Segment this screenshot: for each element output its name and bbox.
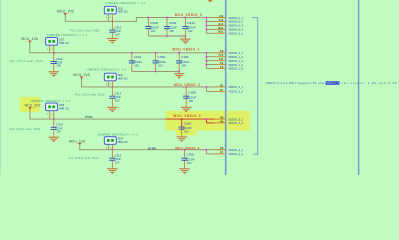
svg-text:N12: N12 — [218, 30, 223, 34]
svg-text:P500: P500 — [85, 115, 93, 119]
svg-text:10V: 10V — [170, 29, 175, 33]
svg-text:C188: C188 — [184, 121, 192, 125]
svg-text:N9: N9 — [220, 119, 224, 123]
svg-text:10V: 10V — [134, 64, 139, 68]
svg-text:Put C314 near J023: Put C314 near J023 — [10, 127, 41, 131]
svg-text:10V: 10V — [115, 98, 120, 102]
svg-text:VDDIO_2_2: VDDIO_2_2 — [228, 90, 243, 94]
svg-text:VDDIO_1_5: VDDIO_1_5 — [228, 67, 243, 71]
svg-text:MCU_VDDIO_2: MCU_VDDIO_2 — [174, 83, 200, 87]
svg-text:HDR 1X2: HDR 1X2 — [59, 42, 70, 45]
svg-text:C314: C314 — [56, 123, 63, 127]
svg-text:VDDIO_0_3: VDDIO_0_3 — [228, 24, 243, 28]
svg-text:0.22UF: 0.22UF — [186, 26, 196, 30]
svg-text:Put C315 near J024: Put C315 near J024 — [69, 156, 100, 160]
svg-text:C308: C308 — [150, 21, 158, 25]
svg-text:VDDIO_0,1,2,4 ONLY support 1.8: VDDIO_0,1,2,4 ONLY support 1.8V, and — [266, 81, 324, 85]
svg-text:MCU_3V3: MCU_3V3 — [25, 103, 41, 108]
svg-text:10V: 10V — [158, 64, 163, 68]
svg-text:10V: 10V — [115, 32, 120, 36]
svg-text:MCU_VDDIO_3: MCU_VDDIO_3 — [174, 114, 201, 118]
svg-text:HDR 1X2: HDR 1X2 — [118, 78, 129, 81]
svg-text:J12: J12 — [219, 14, 224, 18]
svg-text:0.22UF: 0.22UF — [182, 126, 192, 130]
svg-text:P7: P7 — [220, 150, 224, 154]
svg-text:N8: N8 — [220, 116, 224, 120]
svg-text:C195: C195 — [158, 55, 166, 59]
svg-text:VDDIO_1_1: VDDIO_1_1 — [228, 51, 243, 55]
svg-text:10V: 10V — [184, 130, 189, 134]
svg-text:0.22UF: 0.22UF — [185, 157, 195, 161]
svg-text:VDDIO_1_3: VDDIO_1_3 — [228, 59, 243, 63]
svg-text:MCU_VDDIO_0: MCU_VDDIO_0 — [175, 13, 202, 17]
svg-text:VDDIO_0_2: VDDIO_0_2 — [228, 20, 243, 24]
svg-text:10V: 10V — [56, 130, 61, 134]
svg-text:MCU_VDDIO_4: MCU_VDDIO_4 — [175, 147, 199, 151]
svg-text:Put C313 near J022: Put C313 near J022 — [75, 93, 105, 97]
svg-text:VDDIO_1_2: VDDIO_1_2 — [228, 55, 243, 59]
svg-text:C200: C200 — [186, 153, 194, 157]
svg-text:C309: C309 — [169, 21, 177, 25]
svg-text:10V: 10V — [115, 160, 120, 164]
svg-text:M.2 SSD: M.2 SSD — [148, 147, 156, 150]
svg-text:N7: N7 — [220, 83, 224, 87]
svg-text:F11: F11 — [219, 57, 224, 61]
svg-text:MCU_1V8: MCU_1V8 — [73, 72, 90, 77]
svg-text:HDR 1X2: HDR 1X2 — [59, 107, 70, 110]
svg-text:JUMPER (DEFAULT) = 1-2: JUMPER (DEFAULT) = 1-2 — [98, 132, 139, 136]
svg-text:0.22UF: 0.22UF — [149, 26, 159, 30]
svg-text:C310: C310 — [187, 21, 195, 25]
svg-text:F9: F9 — [220, 61, 224, 65]
svg-text:Put C312 near J021: Put C312 near J021 — [10, 59, 44, 63]
svg-text:E12: E12 — [219, 22, 224, 26]
svg-text:0.22UF: 0.22UF — [180, 60, 190, 64]
svg-text:10V: 10V — [187, 161, 192, 165]
svg-text:VDDIO_0_4: VDDIO_0_4 — [228, 28, 243, 32]
svg-text:VDDIO_4_2: VDDIO_4_2 — [228, 152, 243, 156]
svg-text:HDR 1X2: HDR 1X2 — [118, 11, 129, 14]
svg-text:MCU_VDDIO_1: MCU_VDDIO_1 — [173, 48, 200, 52]
svg-text:C313: C313 — [114, 92, 121, 96]
svg-text:P7: P7 — [220, 88, 224, 92]
svg-text:VDDIO_2_1: VDDIO_2_1 — [228, 85, 243, 89]
svg-text:VDDIO_0_1: VDDIO_0_1 — [228, 16, 243, 20]
svg-text:M12: M12 — [218, 26, 224, 30]
svg-text:JUMPER (DEFAULT) = 1-2: JUMPER (DEFAULT) = 1-2 — [30, 99, 71, 103]
svg-text:C198: C198 — [188, 91, 196, 95]
svg-text:VDDIO_1_4: VDDIO_1_4 — [228, 63, 243, 67]
svg-text:0.22UF: 0.22UF — [132, 60, 142, 64]
svg-text:HDR 1X2: HDR 1X2 — [118, 141, 129, 144]
svg-text:10V: 10V — [56, 64, 61, 68]
svg-text:can support 1.8V and 3.3V: can support 1.8V and 3.3V — [342, 81, 397, 85]
svg-text:MCU_1V8: MCU_1V8 — [69, 138, 86, 143]
svg-text:VDDIO_3_2: VDDIO_3_2 — [228, 121, 243, 125]
svg-text:F12: F12 — [219, 18, 224, 22]
svg-text:MCU_1V8: MCU_1V8 — [57, 9, 74, 14]
svg-text:JUMPER (DEFAULT) = 1-2: JUMPER (DEFAULT) = 1-2 — [105, 1, 146, 5]
svg-text:10V: 10V — [151, 29, 156, 33]
svg-text:C315: C315 — [114, 154, 121, 158]
svg-text:JUMPER (DEFAULT) = 1-2: JUMPER (DEFAULT) = 1-2 — [86, 68, 127, 72]
svg-text:JUMPER (DEFAULT) = 1-2: JUMPER (DEFAULT) = 1-2 — [47, 33, 88, 37]
svg-text:C194: C194 — [134, 55, 142, 59]
svg-text:F10: F10 — [219, 53, 224, 57]
svg-text:10V: 10V — [182, 64, 187, 68]
svg-text:C312: C312 — [56, 57, 63, 61]
svg-text:10V: 10V — [189, 99, 194, 103]
svg-text:0.22UF: 0.22UF — [168, 26, 178, 30]
svg-text:MCU_1V8: MCU_1V8 — [21, 36, 38, 41]
svg-text:VDDIO_4_1: VDDIO_4_1 — [228, 148, 243, 152]
svg-text:10V: 10V — [188, 29, 193, 33]
svg-text:C196: C196 — [181, 55, 189, 59]
svg-text:Put C311 near J020: Put C311 near J020 — [70, 28, 100, 32]
svg-text:C311: C311 — [114, 25, 121, 29]
svg-text:VDDIO_3_1: VDDIO_3_1 — [228, 117, 243, 121]
svg-text:0.22UF: 0.22UF — [156, 60, 166, 64]
svg-text:VDDIO_3: VDDIO_3 — [326, 81, 339, 85]
svg-text:F8: F8 — [220, 65, 224, 69]
svg-text:VDDIO_0_5: VDDIO_0_5 — [228, 31, 243, 35]
svg-text:0.22UF: 0.22UF — [187, 95, 197, 99]
